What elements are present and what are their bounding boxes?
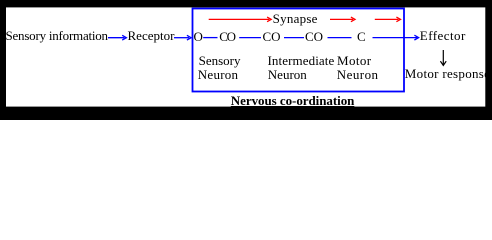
wire: O to CO segment: [203, 37, 217, 39]
frame: right black band: [485, 0, 492, 120]
node C (effector end): [357, 30, 366, 43]
text: Synapse: [273, 12, 318, 25]
text: Motor: [337, 54, 372, 67]
text: Neuron (under Intermediate): [268, 68, 307, 81]
text: Sensory information: [6, 29, 108, 42]
arrow: red arrow (middle synapse): [330, 17, 355, 22]
frame: left black band: [0, 0, 6, 120]
wire: blue arrow from Sensory information to Receptor: [108, 35, 126, 40]
wire: CO to CO segment (2-3): [284, 37, 304, 39]
text: Intermediate: [268, 54, 335, 67]
frame: top black band: [0, 0, 492, 7]
text: Neuron (under Sensory): [198, 68, 239, 81]
arrow: red arrow (right synapse): [375, 17, 401, 22]
text: Neuron (under Motor): [337, 68, 379, 81]
arrow: red arrow to Synapse label: [209, 17, 272, 22]
frame: bottom black band: [0, 107, 492, 120]
node CO (intermediate neuron): [263, 30, 281, 43]
text: Effector: [420, 29, 466, 42]
text: Receptor: [128, 29, 175, 42]
wire: CO to C segment: [328, 37, 352, 39]
caption: Nervous co-ordination (bold underlined): [231, 94, 355, 107]
wire: CO to CO segment (1-2): [239, 37, 261, 39]
node CO (sensory neuron): [219, 30, 234, 43]
wire: blue arrow from Receptor into box: [174, 35, 191, 40]
text: Motor response: [405, 67, 490, 80]
node O (sensory neuron cell body): [194, 30, 203, 43]
node CO (motor neuron): [305, 30, 323, 43]
arrow: black down arrow from Effector to Motor response: [440, 50, 446, 65]
wire: blue arrow from C through box edge to Effector: [373, 35, 419, 40]
box: synapse/neuron chain box (blue rectangle): [193, 9, 405, 92]
text: Sensory (label line 1): [199, 54, 241, 67]
